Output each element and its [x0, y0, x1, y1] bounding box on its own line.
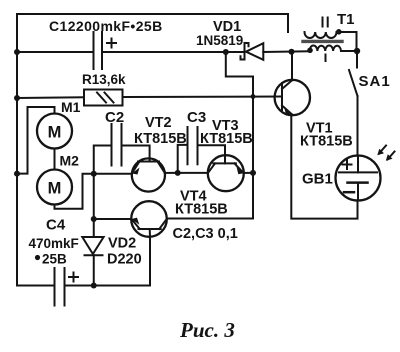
svg-text:1N5819: 1N5819 [196, 33, 243, 48]
svg-text:C4: C4 [46, 217, 66, 234]
svg-text:R13,6k: R13,6k [82, 72, 126, 87]
svg-text:VT2: VT2 [145, 115, 172, 131]
svg-text:T1: T1 [337, 11, 355, 28]
svg-text:470mkF: 470mkF [29, 236, 79, 251]
svg-text:VD2: VD2 [108, 236, 136, 252]
svg-text:C12200mkF•25В: C12200mkF•25В [49, 18, 163, 34]
svg-text:М1: М1 [61, 99, 81, 115]
svg-text:КТ815В: КТ815В [175, 202, 228, 218]
svg-text:М: М [48, 179, 62, 197]
svg-text:КТ815В: КТ815В [300, 134, 353, 150]
svg-text:GB1: GB1 [302, 171, 333, 188]
svg-text:25В: 25В [42, 252, 67, 267]
svg-text:D220: D220 [107, 252, 142, 268]
svg-text:SA1: SA1 [359, 73, 391, 90]
svg-text:М: М [48, 123, 62, 141]
svg-text:М2: М2 [60, 153, 80, 169]
svg-text:C2: C2 [105, 109, 124, 126]
svg-text:КТ815В: КТ815В [200, 131, 253, 147]
svg-text:КТ815В: КТ815В [134, 131, 187, 147]
svg-text:C3: C3 [187, 109, 206, 126]
svg-text:Рис. 3: Рис. 3 [179, 318, 235, 342]
svg-text:C2,C3 0,1: C2,C3 0,1 [173, 226, 238, 242]
